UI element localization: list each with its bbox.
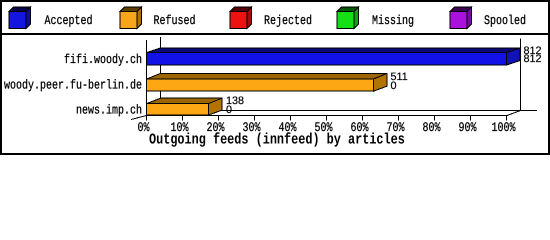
svg-text:Rejected: Rejected [264,14,312,30]
outer border frame [0,0,550,2]
svg-text:80%: 80% [422,122,440,136]
legend cube Refused (orange) [120,7,142,29]
svg-text:0: 0 [391,80,397,92]
svg-text:Outgoing feeds (innfeed) by ar: Outgoing feeds (innfeed) by articles [149,131,405,149]
legend separator line [0,33,550,35]
back-left axis [160,37,161,111]
svg-text:Accepted: Accepted [45,14,93,30]
bar row1 fifi.woody.ch (blue, accepted) [147,48,521,65]
legend cube Spooled (purple) [450,7,472,29]
legend cube Rejected (red) [230,7,252,29]
svg-text:Missing: Missing [372,14,414,30]
svg-text:0%: 0% [137,122,149,136]
svg-text:Spooled: Spooled [484,14,526,30]
svg-text:0: 0 [226,104,232,116]
svg-text:812: 812 [524,53,542,65]
svg-text:Refused: Refused [154,14,196,30]
svg-text:fifi.woody.ch: fifi.woody.ch [64,53,142,69]
back-right axis [520,39,521,111]
bar row2 woody.peer.fu-berlin.de (orange, refused) [147,73,388,91]
x ticks [182,115,507,121]
svg-text:100%: 100% [491,122,515,136]
floor diagonal right [507,111,521,116]
legend cube Accepted (blue) [9,7,31,29]
bar row3 news.imp.ch (orange, refused) [147,98,223,115]
back-bottom axis line [160,110,537,111]
front-bottom axis line [146,115,507,116]
floor diagonal left [131,116,147,120]
front-left axis [146,40,147,121]
x tick labels [137,122,515,136]
legend cube Missing (green) [337,7,359,29]
svg-text:90%: 90% [458,122,476,136]
svg-text:woody.peer.fu-berlin.de: woody.peer.fu-berlin.de [4,78,142,94]
svg-text:news.imp.ch: news.imp.ch [76,103,142,119]
